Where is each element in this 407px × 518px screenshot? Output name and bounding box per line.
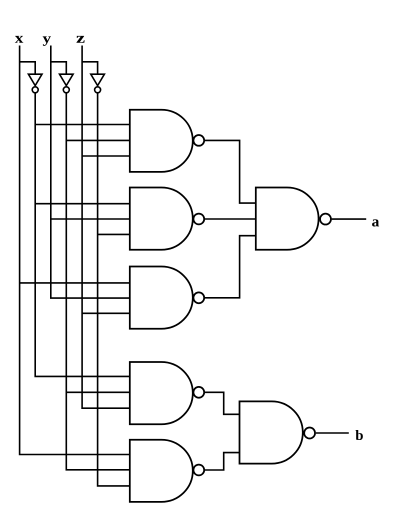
wire y vertical [51,46,130,299]
NAND gate G2 [130,188,193,250]
node a label [372,219,379,226]
wire y branch to inverter U2 [51,62,67,74]
wire gate1 input1 from x' [35,124,130,126]
wire z vertical [82,46,130,409]
NAND gate GA (output a) [256,188,319,250]
wire gate4 input2 from y' [66,391,130,393]
inverter U2 (y inverter) [60,74,74,85]
NAND gate G3 [130,267,193,329]
wire gate1 input2 from y' [66,139,130,141]
inverter U1 (x inverter) [28,74,42,85]
wire y' vertical [66,93,130,470]
wire gate3 input1 from x [20,282,130,284]
wire gate1 output to gateA input1 [205,140,256,203]
node b label [355,430,362,440]
node x label [15,36,23,43]
wire gate2 input2 from y [51,218,130,220]
wire gateB output [316,432,349,434]
wire z' vertical [98,93,130,486]
wire gate3 output to gateA input3 [205,236,256,298]
NAND gate G5 [130,440,193,502]
node y label [43,36,51,45]
NAND gate G1 [130,110,193,172]
wire gate2 input3 from z' [98,233,130,235]
wire gate1 input3 from z [82,155,130,157]
NAND gate GB (output b) [240,401,303,463]
node z label [76,36,84,43]
wire x vertical [20,46,130,455]
wire z branch to inverter U3 [82,62,98,74]
wire gate2 output to gateA input2 [205,218,256,220]
wire gate3 input3 from z [82,312,130,314]
wire gate2 input1 from x' [35,203,130,205]
NAND gate G4 [130,362,193,424]
wire x branch to inverter U1 [20,62,36,74]
wire gate4 output to gateB input1 [205,392,240,414]
wire gateA output [332,218,367,220]
wire x' vertical [35,93,130,377]
wire gate5 output to gateB input2 [205,453,240,470]
inverter U3 (z inverter) [91,74,105,85]
